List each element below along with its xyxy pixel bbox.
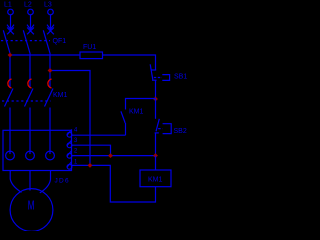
- node junction phase3 control tap: [48, 68, 53, 73]
- terminal 4: [67, 129, 72, 137]
- svg-text:KM1: KM1: [148, 176, 163, 183]
- wire phase2 below breaker: [29, 54, 31, 88]
- wire fuse to SB1: [103, 55, 156, 70]
- svg-text:QF1: QF1: [53, 38, 67, 45]
- start button SB2 actuator: [163, 124, 172, 134]
- motor lead V: [29, 171, 31, 191]
- terminal 1: [67, 161, 72, 169]
- svg-text:JD6: JD6: [55, 177, 70, 184]
- wire L1 drop: [10, 15, 12, 32]
- wire terminal 4 to aux contact: [72, 134, 126, 136]
- stop button SB1 link dashed: [154, 77, 162, 79]
- contactor KM1 pole 3 blade: [45, 89, 54, 107]
- terminal L1: [8, 9, 14, 15]
- contactor KM1 pole 2 arc: [28, 79, 32, 88]
- coil KM1 box: [140, 170, 171, 187]
- stop button SB1 lower tick: [152, 79, 157, 81]
- wire phase2 to box: [29, 108, 31, 155]
- svg-text:L2: L2: [24, 1, 32, 8]
- node junction jumper on wire 2: [108, 153, 113, 158]
- svg-text:SB1: SB1: [174, 73, 187, 80]
- breaker QF1 pole 1 blade: [3, 30, 10, 54]
- wire control return from phase3: [50, 71, 90, 166]
- wire SB2 to coil junction: [155, 133, 157, 156]
- start button SB2 lower tick: [155, 132, 159, 134]
- svg-text:SB2: SB2: [174, 128, 187, 135]
- contactor KM1 linkage dashed: [2, 100, 51, 102]
- wire SB1 junction to SB2: [155, 99, 157, 119]
- start button SB2 link dashed: [158, 128, 162, 130]
- aux contact KM1 blade: [121, 111, 125, 123]
- breaker QF1 pole 1 contact X: [7, 28, 14, 35]
- svg-text:KM1: KM1: [53, 92, 68, 99]
- breaker QF1 pole 2 blade: [23, 30, 30, 54]
- wire aux contact down: [125, 123, 127, 135]
- motor M circle: [10, 189, 53, 232]
- wire terminal 1 to coil return: [72, 165, 156, 202]
- breaker QF1 linkage dashed: [1, 40, 50, 42]
- terminal 3: [67, 140, 72, 148]
- motor terminal W: [46, 151, 55, 160]
- wire SB1 to junction: [155, 80, 157, 98]
- motor lead U: [10, 171, 21, 193]
- svg-text:M: M: [28, 199, 35, 213]
- motor lead W: [40, 171, 51, 193]
- wire L3 drop: [50, 15, 52, 32]
- breaker QF1 pole 2 contact X: [27, 28, 34, 35]
- wire phase3 to box: [49, 108, 51, 155]
- wire phase1 to box: [9, 108, 11, 155]
- wire control feed from phase1: [10, 54, 80, 56]
- svg-text:KM1: KM1: [129, 109, 144, 116]
- arrow L2: [27, 25, 34, 30]
- junction box JD6: [3, 130, 72, 170]
- node junction below SB1: [153, 97, 158, 102]
- contactor KM1 pole 2 blade: [25, 89, 34, 107]
- terminal L2: [28, 9, 34, 15]
- breaker QF1 pole 3 contact X: [47, 28, 54, 35]
- svg-text:L1: L1: [4, 1, 12, 8]
- svg-text:FU1: FU1: [83, 44, 96, 51]
- stop button SB1 actuator: [162, 75, 169, 81]
- start button SB2 blade: [156, 119, 159, 132]
- fuse FU1 body: [80, 52, 103, 59]
- arrow L1: [7, 25, 14, 30]
- stop button SB1 upper tick: [151, 69, 156, 71]
- node junction phase1 control tap: [8, 53, 13, 58]
- contactor KM1 pole 1 blade: [5, 89, 14, 107]
- node junction return and phase3: [88, 163, 93, 168]
- breaker QF1 pole 3 blade: [43, 30, 50, 54]
- wire coil junction to coil: [155, 156, 157, 170]
- node junction coil top: [153, 153, 158, 158]
- contactor KM1 pole 1 arc: [8, 79, 12, 88]
- terminal 2: [67, 150, 72, 158]
- motor terminal V: [26, 151, 35, 160]
- wire L2 drop: [30, 15, 32, 32]
- stop button SB1 blade: [150, 64, 153, 79]
- wire terminal 3 jumper: [72, 145, 111, 155]
- contactor KM1 pole 3 arc: [48, 79, 52, 88]
- wire phase3 below breaker: [49, 54, 51, 88]
- wire phase1 below breaker: [9, 54, 11, 88]
- svg-text:L3: L3: [44, 1, 52, 8]
- motor terminal U: [6, 151, 15, 160]
- wire junction to aux branch: [126, 99, 156, 110]
- terminal L3: [48, 9, 54, 15]
- arrow L3: [47, 25, 54, 30]
- wire terminal 2 to coil top: [72, 155, 156, 157]
